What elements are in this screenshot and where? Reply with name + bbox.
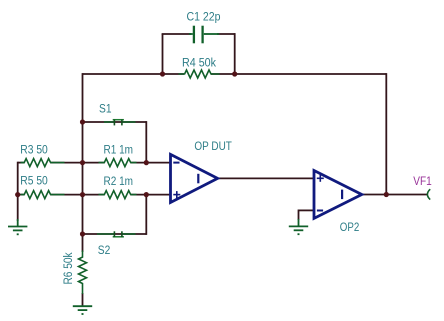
svg-text:C1 22p: C1 22p [187, 9, 221, 23]
wire OP DUT output to OP2 input [218, 177, 315, 179]
wire S2 branch right vertical [145, 195, 147, 235]
node junction R2 right [144, 192, 149, 197]
wire C1 branch right vertical [234, 33, 236, 74]
svg-text:OP DUT: OP DUT [194, 139, 232, 153]
node junction S1 left [80, 119, 85, 124]
svg-text:R2 1m: R2 1m [104, 174, 134, 188]
svg-text:R3 50: R3 50 [20, 142, 48, 156]
wire C1 branch left vertical [162, 34, 164, 74]
wire S2 branch horizontal [83, 233, 147, 235]
node junction C1 right [232, 71, 237, 76]
node junction R1 left [80, 160, 85, 165]
wire R2 row left segment [83, 194, 105, 196]
wire R5 row right segment [50, 194, 82, 196]
resistor R6 vertical [79, 251, 87, 295]
wire R1 row left segment [83, 162, 105, 164]
wire S1 branch right vertical [145, 121, 147, 163]
wire OP2 ground vertical [298, 210, 300, 221]
svg-text:R6 50k: R6 50k [61, 252, 75, 285]
node junction R2 left [80, 192, 85, 197]
ground under OP2 [289, 226, 308, 234]
svg-text:VF1: VF1 [413, 174, 432, 188]
wire R6 top lead [82, 234, 84, 252]
wire R1 row right segment to op-amp [131, 162, 171, 164]
wire left vertical bus [82, 73, 84, 234]
wire R2 row right segment to op-amp [131, 194, 171, 196]
resistor R5 [21, 191, 65, 199]
wire OP2 inverting input stub [299, 209, 315, 211]
node junction OP2 output [384, 192, 389, 197]
wire R3 row right segment [50, 162, 82, 164]
resistor R1 [99, 159, 137, 167]
wire OP2 output to VF1 terminal [362, 194, 427, 196]
voltage probe VF1 tip [427, 189, 430, 199]
svg-text:S1: S1 [99, 102, 112, 116]
wire S1 branch horizontal [83, 121, 147, 123]
node junction R1 right [144, 160, 149, 165]
resistor R4 [179, 70, 220, 78]
svg-text:R5 50: R5 50 [20, 174, 48, 188]
wire top feedback line left of R4 [83, 73, 185, 75]
svg-text:OP2: OP2 [340, 220, 360, 234]
wire far left vertical [17, 162, 19, 221]
switch S1 [104, 120, 136, 126]
wire ground lead left [17, 219, 19, 227]
ground left under R5 [8, 227, 27, 235]
wire C1 branch top left [162, 33, 191, 35]
wire C1 branch top right [217, 33, 235, 35]
op-amp U2 OP2 [314, 171, 362, 219]
wire OP2 ground lead [298, 219, 300, 226]
wire R3 row left corner [18, 162, 25, 164]
wire top feedback line right of R4 [211, 73, 386, 75]
wire R5 row left segment [18, 194, 25, 196]
svg-text:R4 50k: R4 50k [182, 56, 217, 70]
op-amp U1 OP DUT [171, 154, 218, 202]
node junction S2 left [80, 231, 85, 236]
node junction R5 left [15, 192, 20, 197]
resistor R2 [99, 191, 137, 199]
node junction C1 left [160, 71, 165, 76]
wire R6 bottom lead [82, 293, 84, 306]
ground under R6 [73, 306, 92, 314]
resistor R3 [21, 159, 65, 167]
svg-text:S2: S2 [98, 243, 111, 257]
svg-text:R1 1m: R1 1m [104, 143, 134, 157]
wire right vertical feedback [385, 73, 387, 194]
capacitor C1 [189, 26, 219, 44]
switch S2 [97, 231, 136, 237]
